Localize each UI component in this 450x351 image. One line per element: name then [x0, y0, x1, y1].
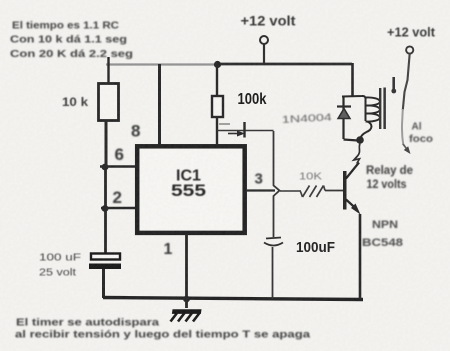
op IC1 555 box: [137, 146, 245, 233]
wire bottom rail: [103, 298, 363, 300]
pin 2 stub: [101, 207, 137, 209]
pin 6 stub: [100, 165, 137, 168]
wire collector to relay junction: [354, 144, 360, 164]
diode 1N4004 flyback: [337, 107, 351, 119]
diode wire (discharge): [217, 122, 274, 138]
wire cap to bottom rail: [272, 247, 274, 299]
capacitor 100uF 25V: [89, 254, 121, 299]
pin 1 wire: [185, 234, 188, 308]
pin 8 wire: [158, 64, 161, 145]
wire terminal to rail: [263, 44, 265, 64]
wire top rail (left light): [106, 63, 218, 65]
terminal +12V top: [260, 36, 268, 44]
resistor 10k: [99, 57, 119, 167]
junction pin6: [102, 164, 109, 171]
transistor Q1 NPN BC548: [343, 163, 361, 300]
junction pin1/rail: [183, 296, 190, 303]
ground symbol: [171, 309, 202, 321]
wire node vertical (diode to node to cap): [274, 131, 280, 237]
arrow to lamp: [403, 144, 411, 154]
terminal +12V right: [406, 46, 413, 53]
pin 3 output wire: [246, 189, 275, 191]
resistor 10K base: [280, 186, 343, 198]
junction pin2: [102, 205, 109, 212]
relay coil: [342, 63, 380, 144]
switch wire lower: [402, 109, 403, 145]
relay core: [379, 88, 386, 130]
junction rail/100k: [214, 61, 221, 68]
wire top rail (right dark): [216, 63, 352, 66]
relay contact tick: [391, 77, 396, 93]
resistor 100k: [212, 64, 223, 145]
switch wire upper: [403, 54, 410, 111]
wire left vertical: [104, 166, 107, 254]
capacitor 100uF timing: [264, 238, 283, 246]
